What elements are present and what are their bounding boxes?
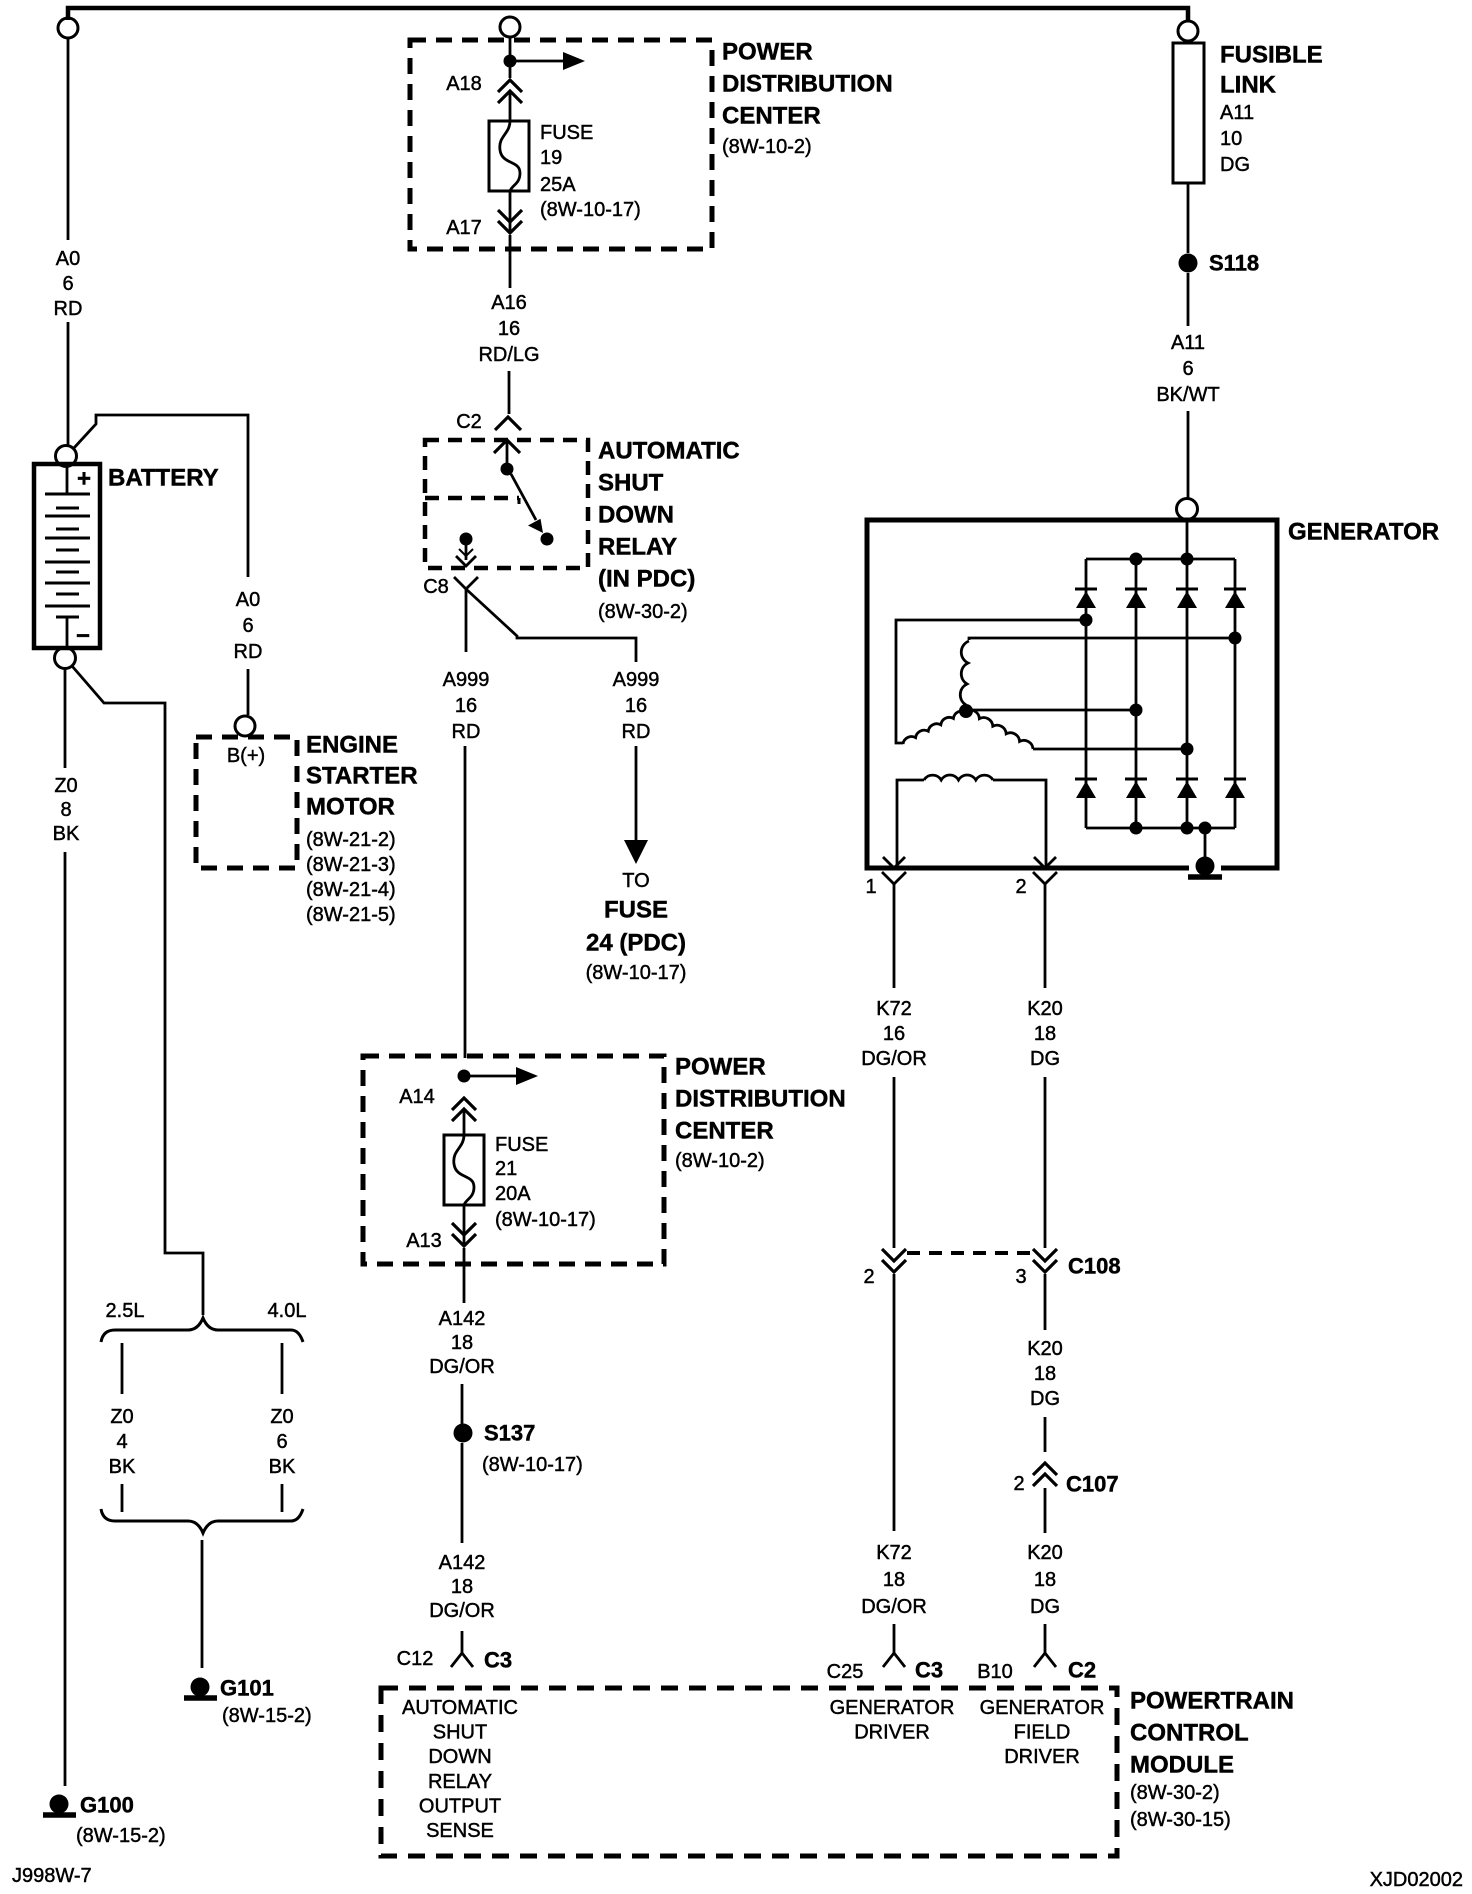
wire A17 out of PDC1 xyxy=(509,235,512,288)
svg-text:C2: C2 xyxy=(456,411,482,433)
svg-text:A13: A13 xyxy=(406,1230,442,1252)
svg-text:19: 19 xyxy=(540,147,562,169)
wire A0 into B(+) xyxy=(247,669,250,715)
svg-text:BK: BK xyxy=(53,823,80,845)
label A18 xyxy=(446,73,482,95)
node A18 junction dot xyxy=(504,55,517,68)
svg-text:A17: A17 xyxy=(446,217,482,239)
svg-text:C107: C107 xyxy=(1066,1472,1119,1497)
label pin 2 (C107) xyxy=(1013,1473,1024,1495)
svg-text:ENGINE: ENGINE xyxy=(306,732,398,759)
rectifier column 4 xyxy=(1234,559,1237,828)
svg-text:K20: K20 xyxy=(1027,1338,1063,1360)
wire label K72 16 DG/OR xyxy=(861,998,927,1070)
stator coil vertical phase xyxy=(960,641,969,705)
stator phase lead to column 4 xyxy=(969,638,1235,640)
wire K20 C108 down xyxy=(1044,1274,1047,1330)
node bottom bus ground tap dot xyxy=(1199,822,1212,835)
svg-text:2: 2 xyxy=(1013,1473,1024,1495)
svg-text:DG: DG xyxy=(1030,1388,1060,1410)
powertrain control module box xyxy=(381,1688,1117,1856)
svg-text:LINK: LINK xyxy=(1220,72,1277,99)
svg-text:RELAY: RELAY xyxy=(428,1771,492,1793)
svg-text:(8W-15-2): (8W-15-2) xyxy=(222,1705,312,1727)
connector C108 pin 2 chevron xyxy=(882,1249,906,1272)
svg-text:RD/LG: RD/LG xyxy=(478,344,539,366)
svg-text:20A: 20A xyxy=(495,1183,531,1205)
wire K20 to PCM xyxy=(1044,1624,1047,1653)
connector C25 fork xyxy=(883,1653,905,1667)
label FUSIBLE LINK A11 10 DG xyxy=(1220,42,1323,177)
wire K72 to C108 xyxy=(893,1077,896,1248)
generator internal ground xyxy=(1188,857,1222,878)
wire A999 left to PDC2 xyxy=(464,746,467,1058)
power distribution center box 2 xyxy=(363,1056,664,1264)
connector C2 chevron xyxy=(495,417,521,430)
wire battery positive to engine starter motor B(+) xyxy=(73,415,248,577)
label XJD02002 xyxy=(1370,1869,1463,1891)
label C3 (generator driver cavity) xyxy=(915,1658,943,1683)
label GENERATOR FIELD DRIVER xyxy=(980,1697,1105,1768)
wire 4.0L stub lower xyxy=(281,1484,284,1512)
relay switch blade with arrow xyxy=(511,474,543,533)
wire A11 to generator xyxy=(1187,411,1190,498)
connector B10 fork xyxy=(1034,1653,1056,1667)
wire label K72 18 DG/OR xyxy=(861,1542,927,1618)
svg-text:8: 8 xyxy=(60,799,71,821)
connector C12 fork xyxy=(451,1653,473,1667)
wire A142 to S137 xyxy=(461,1384,464,1424)
svg-text:DOWN: DOWN xyxy=(598,502,674,529)
svg-text:1: 1 xyxy=(865,876,876,898)
svg-text:A142: A142 xyxy=(439,1552,486,1574)
connector A18 double chevron xyxy=(498,80,522,103)
wire battery negative jog to Z0 engine ground branch xyxy=(72,666,203,1315)
svg-text:GENERATOR: GENERATOR xyxy=(980,1697,1105,1719)
wire ground tap xyxy=(1204,828,1207,858)
splice S137 dot xyxy=(454,1424,473,1443)
node A14 junction dot xyxy=(458,1070,471,1083)
svg-text:GENERATOR: GENERATOR xyxy=(1288,519,1439,546)
fuse 19 symbol xyxy=(489,121,529,191)
label C8 xyxy=(423,576,449,598)
label pin 3 (C108 right) xyxy=(1015,1266,1026,1288)
wire top bus from battery to fusible link xyxy=(68,8,1188,21)
rectifier column 1 xyxy=(1085,559,1088,828)
connector circle fusible link feed xyxy=(1178,21,1198,41)
label C3 (asd sense cavity) xyxy=(484,1648,512,1673)
label G100 xyxy=(76,1793,166,1848)
label C108 xyxy=(1068,1254,1121,1279)
wire Z0 to G100 xyxy=(64,852,67,1786)
svg-text:AUTOMATIC: AUTOMATIC xyxy=(598,438,740,465)
svg-text:16: 16 xyxy=(455,695,477,717)
stator phase lead to column 1 xyxy=(896,620,1086,743)
diode D2 (upper row) xyxy=(1125,589,1147,608)
node bottom bus col3 dot xyxy=(1181,822,1194,835)
label GENERATOR DRIVER xyxy=(830,1697,955,1744)
stator coil left phase xyxy=(903,711,966,744)
svg-text:RELAY: RELAY xyxy=(598,534,677,561)
svg-text:(8W-15-2): (8W-15-2) xyxy=(76,1825,166,1847)
svg-text:6: 6 xyxy=(62,273,73,295)
node stator col2 dot xyxy=(1130,704,1143,717)
node stator col1 dot xyxy=(1080,614,1093,627)
fusible link symbol xyxy=(1173,43,1204,183)
wire label A0 6 RD (battery feed) xyxy=(54,248,83,320)
svg-text:2: 2 xyxy=(863,1266,874,1288)
svg-text:C2: C2 xyxy=(1068,1658,1096,1683)
svg-text:SHUT: SHUT xyxy=(598,470,664,497)
label C25 xyxy=(827,1661,864,1683)
node top bus col3 dot xyxy=(1181,553,1194,566)
wire K20 to C107 xyxy=(1044,1417,1047,1452)
svg-text:GENERATOR: GENERATOR xyxy=(830,1697,955,1719)
wire label K20 18 DG (upper) xyxy=(1027,998,1063,1070)
rectifier column 3 xyxy=(1186,559,1189,828)
svg-text:24 (PDC): 24 (PDC) xyxy=(586,930,686,957)
label GENERATOR xyxy=(1288,519,1439,546)
rectifier top bus xyxy=(1086,558,1235,561)
connector C107 chevron xyxy=(1033,1463,1057,1486)
svg-text:18: 18 xyxy=(1034,1363,1056,1385)
svg-text:Z0: Z0 xyxy=(54,775,77,797)
connector A13 double chevron xyxy=(452,1223,476,1246)
rectifier bottom bus xyxy=(1086,827,1235,830)
wire label K20 18 DG (lower) xyxy=(1027,1542,1063,1618)
wire A18 to fuse 19 xyxy=(509,92,512,121)
svg-text:RD: RD xyxy=(234,641,263,663)
svg-text:RD: RD xyxy=(452,721,481,743)
svg-text:FUSE: FUSE xyxy=(540,122,593,144)
svg-text:6: 6 xyxy=(276,1431,287,1453)
svg-text:C108: C108 xyxy=(1068,1254,1121,1279)
relay switch common dot xyxy=(501,463,514,476)
svg-text:CENTER: CENTER xyxy=(722,103,821,130)
svg-text:RD: RD xyxy=(54,298,83,320)
label FUSE 19 25A xyxy=(540,122,641,221)
fuse 21 symbol xyxy=(444,1135,484,1205)
wire A16 to C2 xyxy=(508,371,511,414)
diode D3 (upper row) xyxy=(1176,589,1198,608)
svg-text:(8W-21-4): (8W-21-4) xyxy=(306,879,396,901)
svg-text:K72: K72 xyxy=(876,1542,912,1564)
svg-text:4.0L: 4.0L xyxy=(268,1300,307,1322)
diode D7 (lower row) xyxy=(1176,779,1198,798)
wire label Z0 8 BK xyxy=(53,775,80,845)
svg-text:AUTOMATIC: AUTOMATIC xyxy=(402,1697,518,1719)
svg-text:G100: G100 xyxy=(80,1793,134,1818)
svg-text:DG/OR: DG/OR xyxy=(861,1596,927,1618)
svg-text:+: + xyxy=(77,466,91,493)
svg-text:FUSIBLE: FUSIBLE xyxy=(1220,42,1323,69)
svg-text:18: 18 xyxy=(451,1332,473,1354)
label TO FUSE 24 (PDC) xyxy=(586,870,687,984)
connector circle B(+) xyxy=(235,716,255,736)
brace merge lower xyxy=(101,1509,303,1533)
label S118 xyxy=(1209,251,1259,276)
svg-text:A11: A11 xyxy=(1220,102,1254,124)
svg-text:K72: K72 xyxy=(876,998,912,1020)
wire label A999 16 RD (right) xyxy=(613,669,660,743)
svg-text:FUSE: FUSE xyxy=(495,1134,548,1156)
svg-text:(8W-10-17): (8W-10-17) xyxy=(482,1454,583,1476)
wire 2.5L stub upper xyxy=(121,1343,124,1394)
connector circle battery negative terminal xyxy=(55,648,76,669)
svg-text:Z0: Z0 xyxy=(110,1406,133,1428)
label POWERTRAIN CONTROL MODULE xyxy=(1130,1688,1294,1832)
diode D8 (lower row) xyxy=(1224,779,1246,798)
wire label Z0 6 BK xyxy=(269,1406,296,1478)
svg-text:C12: C12 xyxy=(397,1648,434,1670)
wire A0 to battery positive terminal xyxy=(67,322,70,445)
label A17 xyxy=(446,217,482,239)
svg-text:POWERTRAIN: POWERTRAIN xyxy=(1130,1688,1294,1715)
connector C108 dashed link xyxy=(907,1251,1032,1255)
svg-text:C3: C3 xyxy=(484,1648,512,1673)
label A13 xyxy=(406,1230,442,1252)
svg-text:DRIVER: DRIVER xyxy=(854,1722,930,1744)
svg-text:18: 18 xyxy=(1034,1569,1056,1591)
svg-text:25A: 25A xyxy=(540,174,576,196)
wire K72 to PCM xyxy=(893,1624,896,1653)
svg-text:10: 10 xyxy=(1220,128,1242,150)
svg-text:BK: BK xyxy=(109,1456,136,1478)
svg-text:DRIVER: DRIVER xyxy=(1004,1746,1080,1768)
brace split upper xyxy=(101,1318,303,1342)
wire label A999 16 RD (left) xyxy=(443,669,490,743)
svg-text:21: 21 xyxy=(495,1158,517,1180)
svg-text:4: 4 xyxy=(116,1431,127,1453)
connector C2 chevron inner xyxy=(494,440,520,453)
svg-text:DOWN: DOWN xyxy=(428,1746,491,1768)
svg-text:SENSE: SENSE xyxy=(426,1820,494,1842)
wire A0 battery positive down segment xyxy=(67,38,70,240)
svg-text:6: 6 xyxy=(1182,358,1193,380)
wire 4.0L stub upper xyxy=(281,1343,284,1394)
svg-text:A18: A18 xyxy=(446,73,482,95)
svg-text:−: − xyxy=(76,623,90,650)
svg-text:SHUT: SHUT xyxy=(433,1722,487,1744)
stator centre lead to column 2 xyxy=(966,709,1136,712)
arrow feed to other circuits (PDC1) xyxy=(516,52,585,70)
diode D6 (lower row) xyxy=(1125,779,1147,798)
svg-text:TO: TO xyxy=(622,870,649,892)
arrow feed to other circuits (PDC2) xyxy=(470,1067,538,1085)
svg-text:DG/OR: DG/OR xyxy=(429,1600,495,1622)
label AUTOMATIC SHUT DOWN RELAY (IN PDC) xyxy=(598,438,740,624)
label pin 1 xyxy=(865,876,876,898)
wire C8 branch right to A999 right xyxy=(466,589,636,662)
svg-text:POWER: POWER xyxy=(722,39,813,66)
wire fuse 19 to A17 xyxy=(509,191,512,233)
label POWER DISTRIBUTION CENTER (top) xyxy=(722,39,893,159)
label B10 xyxy=(977,1661,1013,1683)
svg-text:18: 18 xyxy=(1034,1023,1056,1045)
wire label Z0 4 BK xyxy=(109,1406,136,1478)
svg-text:16: 16 xyxy=(883,1023,905,1045)
svg-text:(8W-30-15): (8W-30-15) xyxy=(1130,1809,1231,1831)
node bottom bus col2 dot xyxy=(1130,822,1143,835)
wire circle to A18 node xyxy=(509,37,512,78)
wire A14 to fuse 21 xyxy=(463,1110,466,1135)
svg-text:(8W-10-2): (8W-10-2) xyxy=(675,1150,765,1172)
svg-text:(8W-21-2): (8W-21-2) xyxy=(306,829,396,851)
wire A999 right arrow down xyxy=(624,746,648,864)
connector circle generator output xyxy=(1177,499,1198,520)
svg-text:POWER: POWER xyxy=(675,1054,766,1081)
wire label K20 18 DG (mid) xyxy=(1027,1338,1063,1410)
wire C107 down xyxy=(1044,1488,1047,1533)
wire A142 to C12 xyxy=(461,1631,464,1653)
label POWER DISTRIBUTION CENTER (mid) xyxy=(675,1054,846,1173)
relay output node dot xyxy=(460,533,473,546)
svg-text:DISTRIBUTION: DISTRIBUTION xyxy=(675,1086,846,1113)
svg-text:DG: DG xyxy=(1220,154,1250,176)
svg-text:A11: A11 xyxy=(1171,332,1205,354)
label FUSE 21 20A xyxy=(495,1134,596,1231)
svg-text:B(+): B(+) xyxy=(227,745,265,767)
label BATTERY xyxy=(108,465,219,492)
label C107 xyxy=(1066,1472,1119,1497)
node stator col3 dot xyxy=(1181,743,1194,756)
svg-text:MOTOR: MOTOR xyxy=(306,794,395,821)
label 2.5L xyxy=(106,1300,145,1322)
rectifier column 2 xyxy=(1135,559,1138,828)
generator pin 2 connector xyxy=(1033,857,1057,895)
wire C8 branch left down xyxy=(465,589,468,652)
wire 2.5L stub lower xyxy=(121,1484,124,1512)
svg-text:A14: A14 xyxy=(399,1086,435,1108)
svg-text:Z0: Z0 xyxy=(270,1406,293,1428)
svg-text:DG/OR: DG/OR xyxy=(861,1048,927,1070)
svg-text:FIELD: FIELD xyxy=(1014,1722,1071,1744)
connector A17 double chevron xyxy=(498,210,522,233)
generator field winding xyxy=(897,775,1046,866)
svg-text:2.5L: 2.5L xyxy=(106,1300,145,1322)
wire S137 down xyxy=(461,1443,464,1543)
svg-text:CENTER: CENTER xyxy=(675,1118,774,1145)
wire generator input to rectifier bus xyxy=(1186,522,1189,559)
svg-text:BK: BK xyxy=(269,1456,296,1478)
generator box xyxy=(867,520,1277,868)
connector circle battery positive feed (top left) xyxy=(58,18,78,38)
ground G100 xyxy=(43,1795,76,1816)
svg-text:18: 18 xyxy=(883,1569,905,1591)
wire K72 from pin 1 xyxy=(893,895,896,988)
connector circle PDC feed (top middle) xyxy=(500,17,520,37)
svg-text:B10: B10 xyxy=(977,1661,1013,1683)
label ASD RELAY OUTPUT SENSE xyxy=(402,1697,518,1842)
wire K20 from pin 2 xyxy=(1044,895,1047,988)
svg-text:G101: G101 xyxy=(220,1676,274,1701)
label 4.0L xyxy=(268,1300,307,1322)
svg-text:BATTERY: BATTERY xyxy=(108,465,219,492)
svg-text:A999: A999 xyxy=(443,669,490,691)
wire fusible link to S118 xyxy=(1187,183,1190,253)
svg-text:C25: C25 xyxy=(827,1661,864,1683)
label pin 2 (C108 left) xyxy=(863,1266,874,1288)
svg-text:(8W-10-17): (8W-10-17) xyxy=(586,962,687,984)
wire S118 down xyxy=(1187,273,1190,326)
svg-text:FUSE: FUSE xyxy=(604,897,668,924)
connector circle battery positive terminal xyxy=(56,446,77,467)
connector C8 fork xyxy=(454,577,478,589)
svg-text:S137: S137 xyxy=(484,1421,535,1446)
svg-text:DISTRIBUTION: DISTRIBUTION xyxy=(722,71,893,98)
automatic shut down relay box xyxy=(425,440,588,568)
battery symbol xyxy=(34,464,100,650)
svg-text:K20: K20 xyxy=(1027,998,1063,1020)
svg-text:A16: A16 xyxy=(491,292,527,314)
relay switch contact dot xyxy=(541,533,554,546)
svg-text:DG: DG xyxy=(1030,1596,1060,1618)
label A14 xyxy=(399,1086,435,1108)
svg-text:BK/WT: BK/WT xyxy=(1156,384,1219,406)
svg-text:(8W-30-2): (8W-30-2) xyxy=(598,601,688,623)
relay output arrow to C8 xyxy=(456,545,476,566)
wire label A142 18 DG/OR (lower) xyxy=(429,1552,495,1622)
wire C2 to relay common xyxy=(506,440,509,463)
svg-text:(8W-10-2): (8W-10-2) xyxy=(722,136,812,158)
label pin 2 xyxy=(1015,876,1026,898)
stator coil right phase xyxy=(966,710,1033,749)
svg-text:XJD02002: XJD02002 xyxy=(1370,1869,1463,1891)
splice S118 dot xyxy=(1179,254,1198,273)
svg-text:C8: C8 xyxy=(423,576,449,598)
svg-text:(8W-10-17): (8W-10-17) xyxy=(540,199,641,221)
svg-text:J998W-7: J998W-7 xyxy=(12,1865,92,1887)
wire label A142 18 DG/OR (upper) xyxy=(429,1308,495,1378)
svg-text:(IN PDC): (IN PDC) xyxy=(598,566,695,593)
svg-text:(8W-21-5): (8W-21-5) xyxy=(306,904,396,926)
label B(+) xyxy=(227,745,265,767)
wire label A16 16 RD/LG xyxy=(478,292,539,366)
svg-text:3: 3 xyxy=(1015,1266,1026,1288)
wire A13 out of PDC2 xyxy=(463,1248,466,1303)
node top bus col2 dot xyxy=(1130,553,1143,566)
svg-text:16: 16 xyxy=(625,695,647,717)
label C12 xyxy=(397,1648,434,1670)
svg-text:(8W-10-17): (8W-10-17) xyxy=(495,1209,596,1231)
generator pin 1 connector xyxy=(882,857,906,895)
svg-text:A0: A0 xyxy=(56,248,80,270)
node stator col4 dot xyxy=(1229,632,1242,645)
svg-text:RD: RD xyxy=(622,721,651,743)
wire K20 to C108 xyxy=(1044,1077,1047,1248)
label S137 xyxy=(482,1421,583,1477)
diode D5 (lower row) xyxy=(1075,779,1097,798)
label C2 xyxy=(456,411,482,433)
connector C108 pin 3 chevron xyxy=(1033,1249,1057,1272)
label G101 xyxy=(220,1676,312,1728)
svg-text:(8W-21-3): (8W-21-3) xyxy=(306,854,396,876)
svg-text:A142: A142 xyxy=(439,1308,486,1330)
svg-text:S118: S118 xyxy=(1209,251,1259,276)
wire label A0 6 RD (starter feed) xyxy=(234,589,263,663)
svg-text:C3: C3 xyxy=(915,1658,943,1683)
wire label A11 6 BK/WT xyxy=(1156,332,1219,406)
svg-text:A999: A999 xyxy=(613,669,660,691)
engine starter motor box xyxy=(196,737,297,868)
svg-text:A0: A0 xyxy=(236,589,260,611)
connector A14 double chevron xyxy=(452,1098,476,1121)
svg-text:STARTER: STARTER xyxy=(306,763,418,790)
svg-text:CONTROL: CONTROL xyxy=(1130,1720,1249,1747)
svg-text:6: 6 xyxy=(242,615,253,637)
diode D4 (upper row) xyxy=(1224,589,1246,608)
wire K72 C108 to C3 fork xyxy=(893,1274,896,1531)
